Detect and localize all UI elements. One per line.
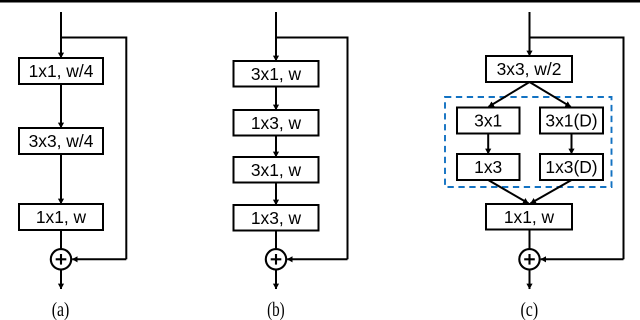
wire: skip vertical (c) bbox=[623, 37, 625, 260]
wire: skip branch horizontal (a) bbox=[61, 37, 126, 39]
wire+arrow: b2 to b3 bbox=[275, 136, 277, 158]
plus sign (c) bbox=[528, 254, 530, 265]
svg-text:3x1, w: 3x1, w bbox=[251, 160, 302, 180]
top rule bbox=[0, 0, 640, 3]
wire+arrow: split to 3x1 bbox=[489, 82, 530, 107]
svg-text:1x1, w: 1x1, w bbox=[504, 207, 555, 227]
wire+arrow: split to 3x1(D) bbox=[530, 82, 571, 107]
wire: box3 to adder (a) bbox=[60, 230, 62, 249]
box: conv 3x1 branch bbox=[457, 108, 520, 134]
wire: 1x1,w to adder (c) bbox=[529, 230, 531, 250]
box: conv 3x1, w (third) bbox=[234, 157, 319, 183]
wire: skip vertical (a) bbox=[125, 37, 127, 260]
box: conv 3x1, w (first) bbox=[234, 61, 319, 87]
wire+arrow: b1 to b2 bbox=[275, 87, 277, 111]
plus sign (b) bbox=[275, 254, 277, 265]
svg-text:(a): (a) bbox=[52, 299, 70, 320]
box: conv 1x3, w (fourth) bbox=[234, 205, 319, 231]
wire+arrow: adder output (b) bbox=[275, 270, 277, 289]
box: conv 3x3, w/2 bbox=[486, 56, 572, 82]
wire+arrow: adder output (a) bbox=[60, 270, 62, 289]
wire: skip into adder (c) bbox=[541, 258, 624, 260]
svg-text:1x3(D): 1x3(D) bbox=[545, 157, 597, 177]
wire+arrow: 3x1 to 1x3 bbox=[487, 134, 489, 155]
wire+arrow: 1x3(D) merge to 1x1,w bbox=[531, 180, 572, 203]
box: conv 1x1, w (c) bbox=[486, 204, 572, 230]
wire+arrow: b3 to b4 bbox=[275, 183, 277, 206]
svg-text:1x3, w: 1x3, w bbox=[251, 208, 302, 228]
wire: skip into adder (b) bbox=[287, 258, 347, 260]
box: conv 1x1, w/4 bbox=[19, 58, 103, 84]
wire: skip branch horizontal (b) bbox=[276, 37, 348, 39]
box: conv 1x3(D) branch bbox=[540, 154, 603, 180]
box: conv 3x3, w/4 bbox=[19, 128, 103, 154]
wire: skip vertical (b) bbox=[347, 37, 349, 260]
box: conv 1x3, w (second) bbox=[234, 110, 319, 136]
svg-text:1x3: 1x3 bbox=[474, 157, 502, 177]
svg-text:3x1(D): 3x1(D) bbox=[545, 111, 597, 131]
box: conv 3x1(D) branch bbox=[540, 108, 603, 134]
wire+arrow: adder output (c) bbox=[529, 270, 531, 289]
wire: input vertical (a) bbox=[60, 12, 62, 58]
wire: skip branch horizontal (c) bbox=[530, 37, 624, 39]
plus sign (a) bbox=[60, 254, 62, 265]
svg-text:1x3, w: 1x3, w bbox=[251, 113, 302, 133]
svg-text:3x1: 3x1 bbox=[474, 111, 502, 131]
svg-text:1x1, w: 1x1, w bbox=[36, 207, 87, 227]
svg-text:3x1, w: 3x1, w bbox=[251, 64, 302, 84]
svg-text:(b): (b) bbox=[267, 299, 285, 320]
wire+arrow: 3x1(D) to 1x3(D) bbox=[571, 134, 573, 155]
wire+arrow: box2 to box3 (a) bbox=[60, 154, 62, 204]
wire: skip into adder (a) bbox=[72, 258, 126, 260]
adder circle (a) bbox=[51, 249, 71, 269]
svg-text:3x3, w/2: 3x3, w/2 bbox=[497, 59, 562, 79]
box: conv 1x1, w (a) bbox=[19, 204, 103, 230]
wire: b4 to adder bbox=[275, 231, 277, 250]
box: conv 1x3 branch bbox=[457, 154, 520, 180]
wire: input vertical (c) bbox=[529, 12, 531, 56]
svg-text:1x1, w/4: 1x1, w/4 bbox=[29, 61, 94, 81]
svg-text:3x3, w/4: 3x3, w/4 bbox=[29, 131, 94, 151]
adder circle (b) bbox=[266, 249, 286, 269]
wire+arrow: 1x3 merge to 1x1,w bbox=[488, 180, 528, 203]
wire+arrow: box1 to box2 (a) bbox=[60, 84, 62, 128]
svg-text:(c): (c) bbox=[521, 299, 539, 320]
wire: input vertical (b) bbox=[275, 12, 277, 61]
adder circle (c) bbox=[519, 249, 539, 269]
dashed region of parallel branches bbox=[445, 97, 612, 187]
